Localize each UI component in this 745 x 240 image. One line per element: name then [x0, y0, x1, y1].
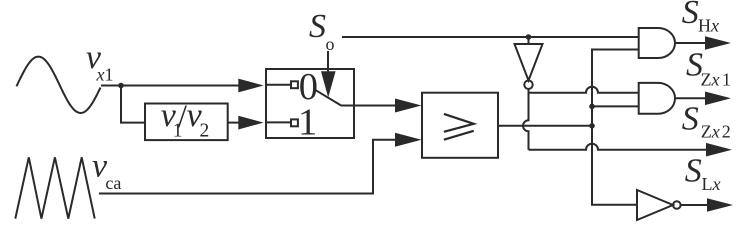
svg-text:o: o — [326, 34, 335, 54]
svg-text:ca: ca — [105, 173, 121, 193]
svg-text:Hx: Hx — [698, 15, 719, 35]
svg-text:Zx1: Zx1 — [701, 69, 732, 89]
svg-text:S: S — [309, 8, 326, 45]
svg-text:S: S — [685, 152, 702, 189]
svg-text:x1: x1 — [96, 65, 114, 85]
svg-text:1: 1 — [298, 102, 317, 144]
svg-text:Zx2: Zx2 — [701, 122, 731, 142]
svg-text:S: S — [682, 0, 699, 31]
svg-text:2: 2 — [200, 121, 210, 142]
svg-text:S: S — [682, 101, 699, 138]
svg-text:Lx: Lx — [702, 174, 721, 194]
